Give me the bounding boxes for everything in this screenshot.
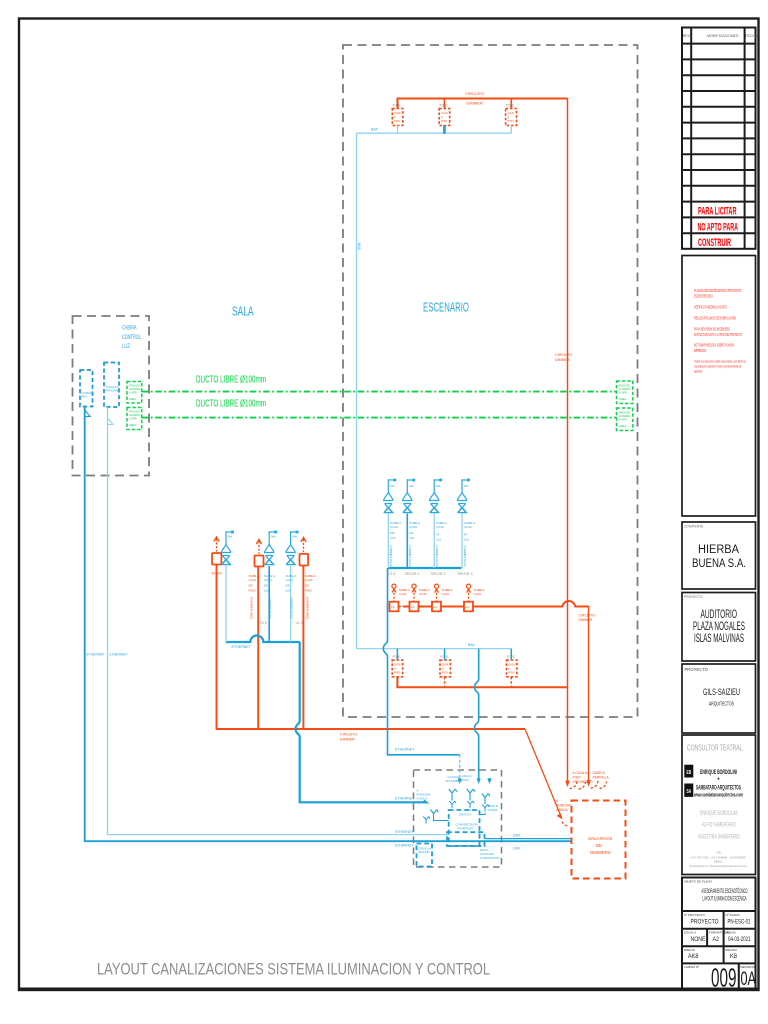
svg-text:ENRIQUE BORDOLINI: ENRIQUE BORDOLINI xyxy=(700,810,738,817)
svg-text:ETHERNET: ETHERNET xyxy=(232,645,252,649)
cabina wire 1 (consola ppal to rack) xyxy=(85,407,571,842)
svg-text:CONSOLA: CONSOLA xyxy=(106,385,119,389)
floor boxes bus wire with hop over vertical xyxy=(403,601,589,606)
fixture ML2 xyxy=(265,531,278,565)
svg-text:CIRCUITO: CIRCUITO xyxy=(465,91,484,96)
svg-text:CAJA: CAJA xyxy=(286,578,294,582)
svg-text:PISO: PISO xyxy=(305,589,313,593)
svg-text:ARQUITECTOS: ARQUITECTOS xyxy=(709,702,734,708)
svg-text:CIRCUITO: CIRCUITO xyxy=(579,614,596,618)
svg-text:SUBE A: SUBE A xyxy=(593,771,606,775)
svg-text:DIMMER: DIMMER xyxy=(555,358,570,362)
svg-text:PASA DE: PASA DE xyxy=(129,384,140,388)
svg-text:Todos los derechos están reser: Todos los derechos están reservados, por… xyxy=(694,360,746,364)
svg-text:A DIMMER RACK: A DIMMER RACK xyxy=(289,597,293,619)
svg-text:DE: DE xyxy=(390,531,394,535)
svg-text:EMAIL: EMAIL xyxy=(714,860,723,864)
arrow above fp4 xyxy=(466,584,470,601)
svg-text:SPLDR 1: SPLDR 1 xyxy=(405,572,420,576)
svg-text:PISO: PISO xyxy=(508,671,514,675)
green patch box right 2 xyxy=(617,408,633,431)
svg-text:DIMMER: DIMMER xyxy=(467,101,483,106)
arrow above fp3 xyxy=(434,584,438,601)
dashed riser arc at diagonal end xyxy=(562,822,569,827)
svg-text:PASA DE: PASA DE xyxy=(619,384,630,388)
convertidor ethernet dashed box xyxy=(449,810,480,846)
dmx double wire to rack xyxy=(485,838,572,840)
svg-text:W: W xyxy=(436,533,439,537)
svg-text:P2 E: P2 E xyxy=(440,104,449,108)
svg-text:PROYECTO: PROYECTO xyxy=(685,667,709,672)
svg-text:CONSOLA: CONSOLA xyxy=(418,847,431,851)
svg-text:ESCALA: ESCALA xyxy=(684,931,696,935)
flag on wire1 xyxy=(85,410,91,417)
svg-text:CONSOLA: CONSOLA xyxy=(81,391,94,395)
svg-text:LAYOUT CANALIZACIONES SISTEMA: LAYOUT CANALIZACIONES SISTEMA ILUMINACIO… xyxy=(97,961,490,979)
svg-text:A VER: A VER xyxy=(129,391,137,395)
fixture labels midleft xyxy=(228,535,297,539)
logo EB xyxy=(685,765,693,777)
electrics bus wire (4 fixtures) y568 xyxy=(388,567,462,569)
svg-text:PARRILLA: PARRILLA xyxy=(593,776,610,780)
svg-text:CAJA: CAJA xyxy=(390,525,398,529)
arrow above fp2 xyxy=(412,584,416,601)
stage dimmer box P2 E xyxy=(440,660,450,677)
svg-text:PN-ESC-01: PN-ESC-01 xyxy=(728,919,751,926)
svg-text:CAJA: CAJA xyxy=(508,663,515,667)
svg-text:DIMMER: DIMMER xyxy=(340,738,355,742)
svg-text:DIBUJO: DIBUJO xyxy=(684,948,696,952)
svg-text:BUENA S.A.: BUENA S.A. xyxy=(692,558,746,570)
svg-text:DMX: DMX xyxy=(513,847,521,851)
svg-text:A DIMMER RACK: A DIMMER RACK xyxy=(306,597,310,620)
stub P3E bottom xyxy=(510,677,512,687)
svg-text:DIMMERS: DIMMERS xyxy=(590,850,611,855)
svg-text:ESCENARIO: ESCENARIO xyxy=(573,780,593,784)
stage floor pocket box V1 xyxy=(300,554,309,566)
stage floor pocket box V3 xyxy=(212,553,221,565)
svg-text:A CAJA A: A CAJA A xyxy=(573,771,588,775)
svg-text:MA: MA xyxy=(293,535,297,539)
GILS-SAIZIEU box xyxy=(682,664,756,733)
svg-text:FECHA: FECHA xyxy=(745,34,758,38)
svg-text:1x2: 1x2 xyxy=(390,536,395,540)
svg-text:P3 E: P3 E xyxy=(506,104,515,108)
svg-text:A DIMMER RACK: A DIMMER RACK xyxy=(435,545,439,567)
gray labels V xyxy=(260,621,303,625)
labels above top boxes xyxy=(393,104,515,108)
connector stubs inside consola box xyxy=(434,798,486,821)
svg-text:PASA DE: PASA DE xyxy=(129,410,140,414)
svg-text:PLANOS DE DISEÑO BASICO PROYEC: PLANOS DE DISEÑO BASICO PROYECTO xyxy=(694,288,741,293)
left data riser wire x356.5 xyxy=(356,133,358,649)
svg-text:OBJETO DE PLANO: OBJETO DE PLANO xyxy=(684,880,713,884)
svg-text:MA: MA xyxy=(228,535,232,539)
svg-text:CAJA: CAJA xyxy=(474,592,482,596)
svg-text:VERIFICAR MEDIDAS IN SITU: VERIFICAR MEDIDAS IN SITU xyxy=(694,305,727,310)
svg-text:SALA: SALA xyxy=(232,304,254,319)
drop to P1 E xyxy=(396,649,398,660)
svg-text:ALFIO SAMBATARO: ALFIO SAMBATARO xyxy=(702,822,736,829)
svg-text:PISO: PISO xyxy=(394,119,400,123)
svg-text:0A: 0A xyxy=(741,968,757,990)
svg-text:ALFOMBRA: ALFOMBRA xyxy=(446,779,463,783)
fixture drop wires midleft xyxy=(225,566,227,642)
escenario dimmer bus wire y687 xyxy=(397,677,567,687)
svg-text:AUDITORIO: AUDITORIO xyxy=(701,609,738,621)
svg-text:MA: MA xyxy=(271,535,275,539)
svg-text:ILUMINACION: ILUMINACION xyxy=(480,856,500,860)
fixture SPLDR2 xyxy=(430,479,443,513)
svg-text:V1 3: V1 3 xyxy=(296,621,303,625)
svg-text:PARA REVISION DE INGENIERO: PARA REVISION DE INGENIERO xyxy=(694,327,730,332)
stub below top box1 xyxy=(397,126,399,134)
drop into consola box w arrow xyxy=(459,755,461,780)
svg-text:NONE: NONE xyxy=(691,936,706,943)
svg-text:LUZ: LUZ xyxy=(122,343,130,350)
wire stage box2 drop xyxy=(257,567,259,730)
svg-text:AK8: AK8 xyxy=(688,953,699,960)
svg-text:CIRCUITO: CIRCUITO xyxy=(340,733,358,737)
svg-text:DE: DE xyxy=(305,584,309,588)
svg-text:REVISO: REVISO xyxy=(726,948,738,952)
svg-text:A SALA: A SALA xyxy=(556,808,568,812)
svg-text:A DIMMER RACK: A DIMMER RACK xyxy=(389,545,393,567)
svg-text:CAJA: CAJA xyxy=(442,592,450,596)
svg-text:PASA DE: PASA DE xyxy=(619,411,630,415)
wire down from floor bus to rack arrow xyxy=(588,607,590,785)
label stack v1 xyxy=(305,574,316,593)
svg-text:PISO: PISO xyxy=(394,671,400,675)
svg-text:SARTA: SARTA xyxy=(488,808,498,812)
floor pocket fp2 xyxy=(410,602,419,612)
svg-text:BAA: BAA xyxy=(468,643,476,647)
label a caja a piso escenario xyxy=(573,771,593,784)
svg-text:BAA: BAA xyxy=(357,243,361,251)
riser from bus left end down with hop xyxy=(383,568,459,755)
spare data wire x478.7 with hops xyxy=(475,649,479,780)
svg-text:GILS-SAIZIEU: GILS-SAIZIEU xyxy=(703,687,740,697)
svg-text:ETHERNET: ETHERNET xyxy=(395,844,413,848)
svg-text:MA: MA xyxy=(436,484,440,488)
duct line 2 (green dash-dot) xyxy=(142,417,617,419)
svg-text:GUARDA: GUARDA xyxy=(129,387,140,391)
fp labels xyxy=(399,588,484,596)
stub P2E bottom xyxy=(444,677,446,687)
svg-text:DIMMER: DIMMER xyxy=(579,618,593,622)
rack label xyxy=(588,836,612,855)
svg-text:IMPRESOS: IMPRESOS xyxy=(694,348,706,353)
label stack v2 xyxy=(249,574,260,593)
svg-text:PUNCION: PUNCION xyxy=(556,804,572,808)
svg-text:PRINCIPAL: PRINCIPAL xyxy=(106,388,120,392)
mid-left ethernet bus y642 with hop xyxy=(226,636,300,642)
stage dimmer box P3 E xyxy=(507,660,517,677)
wire stub P3E top xyxy=(510,98,512,109)
svg-text:ETHERNET: ETHERNET xyxy=(395,830,413,834)
label a puncion a sala xyxy=(556,799,572,812)
svg-text:CABINA: CABINA xyxy=(122,325,137,332)
svg-text:MODIFICACIONES: MODIFICACIONES xyxy=(707,34,739,38)
svg-text:FP: FP xyxy=(411,606,415,610)
svg-text:A DIMMER RACK: A DIMMER RACK xyxy=(463,545,467,567)
svg-text:COMITENTE: COMITENTE xyxy=(684,525,704,529)
HIERBA BUENA box xyxy=(682,522,756,589)
cabina rack box 1 (blue dashed) xyxy=(80,370,93,407)
svg-text:AREA: AREA xyxy=(129,423,136,427)
svg-text:PISO: PISO xyxy=(462,778,470,782)
svg-text:1x2: 1x2 xyxy=(264,589,269,593)
wire from midleft bus down to consola feed with hop xyxy=(296,642,427,802)
label circuito dimmer on vertical xyxy=(555,353,573,362)
svg-text:ASESORAMIENTO ESCENOTÉCNICO: ASESORAMIENTO ESCENOTÉCNICO xyxy=(702,888,748,895)
svg-text:SA: SA xyxy=(687,789,692,795)
green patch box right 1 xyxy=(617,381,633,404)
svg-text:+: + xyxy=(717,777,720,783)
green patch box left 2 xyxy=(127,408,142,430)
svg-text:CAJA: CAJA xyxy=(409,525,417,529)
svg-text:GUARDA: GUARDA xyxy=(619,414,630,418)
svg-text:ETHERNET: ETHERNET xyxy=(395,797,415,801)
svg-text:ESCENOTECNICA: ESCENOTECNICA xyxy=(694,294,713,299)
label circuito dimmer at bus left xyxy=(340,733,358,742)
svg-text:ENRIQUE BORDOLINI: ENRIQUE BORDOLINI xyxy=(700,769,737,776)
small filled arrow marks xyxy=(487,778,491,784)
svg-text:FP: FP xyxy=(434,606,438,610)
bottom data block xyxy=(682,878,756,990)
svg-text:Nº PLANO: Nº PLANO xyxy=(726,913,741,917)
stage dimmer box P1 E xyxy=(392,660,402,677)
svg-text:CAJA: CAJA xyxy=(249,578,257,582)
svg-text:1x2: 1x2 xyxy=(409,536,414,540)
svg-text:A VER: A VER xyxy=(619,418,627,422)
svg-text:GUARDA: GUARDA xyxy=(129,413,140,417)
top data wire y133 xyxy=(357,132,512,134)
green patch box left 1 xyxy=(127,382,142,404)
fixture SPLDR1 xyxy=(403,479,416,513)
svg-text:FP: FP xyxy=(391,606,395,610)
svg-text:W: W xyxy=(464,533,467,537)
arrowhead at end of diagonal xyxy=(557,813,563,819)
up arrow above V1 box xyxy=(301,537,306,552)
svg-text:A VER: A VER xyxy=(619,391,627,395)
red stamp: PARA LICITAR / NO APTO PARA / CONSTRUIR xyxy=(698,206,739,250)
svg-text:A: A xyxy=(394,667,396,671)
CONSULTOR TEATRAL box xyxy=(682,735,756,875)
cabina rack box 2 (blue dashed) xyxy=(104,363,119,408)
dimmer box P2 E top xyxy=(439,109,450,126)
svg-text:P1 E: P1 E xyxy=(393,104,402,108)
svg-text:FP: FP xyxy=(466,606,470,610)
svg-text:CONSTRUIR: CONSTRUIR xyxy=(698,237,731,249)
svg-text:SWITCH: SWITCH xyxy=(459,813,471,817)
revisions table xyxy=(682,28,756,249)
fixture drop wires 4group xyxy=(387,514,389,568)
svg-text:PISO: PISO xyxy=(441,119,447,123)
svg-text:AREA: AREA xyxy=(619,397,626,401)
svg-text:AREA: AREA xyxy=(619,424,626,428)
svg-text:LAMINA Nº: LAMINA Nº xyxy=(684,965,700,969)
svg-text:PISO: PISO xyxy=(573,776,581,780)
svg-text:ESTRUCTURALISTA A CARGO DEL PR: ESTRUCTURALISTA A CARGO DEL PROYECTO xyxy=(694,332,742,337)
svg-text:A DIMMER RACK: A DIMMER RACK xyxy=(250,597,254,620)
notes box xyxy=(682,256,756,517)
wire stage box3 drop xyxy=(302,566,304,729)
dimmer box P1 E top xyxy=(392,109,403,126)
wire stub P1E top xyxy=(443,98,445,109)
svg-text:A2: A2 xyxy=(713,936,720,943)
svg-text:MA: MA xyxy=(390,484,394,488)
sala rack de dimmers dashed box xyxy=(572,801,626,879)
bus labels xyxy=(389,572,473,576)
svg-text:DE: DE xyxy=(264,584,268,588)
labels above stage boxes xyxy=(393,655,516,659)
svg-text:DE: DE xyxy=(596,843,602,848)
escenario boundary dashed box xyxy=(343,45,638,717)
consola secundaria dashed box xyxy=(417,844,433,867)
svg-text:SPLDR 2: SPLDR 2 xyxy=(431,572,446,576)
svg-text:PLAZA NOGALES: PLAZA NOGALES xyxy=(693,621,745,633)
svg-text:autor: autor xyxy=(694,370,703,374)
svg-text:NO APTO PARA: NO APTO PARA xyxy=(698,222,739,234)
svg-text:A SALA: A SALA xyxy=(417,797,427,801)
svg-text:A: A xyxy=(556,799,559,803)
svg-text:CAJA: CAJA xyxy=(264,578,272,582)
svg-text:GUARDA: GUARDA xyxy=(619,387,630,391)
svg-text:CAJA: CAJA xyxy=(394,111,401,115)
svg-text:SECUND.: SECUND. xyxy=(418,850,430,854)
svg-text:A: A xyxy=(442,667,444,671)
svg-text:DE: DE xyxy=(286,584,290,588)
arrow above fp1 xyxy=(392,584,396,601)
arrowhead down on long vertical at rack xyxy=(565,781,570,787)
svg-text:1x2: 1x2 xyxy=(464,538,469,542)
svg-text:ETHERNET: ETHERNET xyxy=(87,653,105,657)
svg-text:V2 3: V2 3 xyxy=(260,621,267,625)
svg-text:A DIMMER RACK: A DIMMER RACK xyxy=(268,597,272,619)
svg-text:MA: MA xyxy=(409,484,413,488)
drop to P3 E xyxy=(510,649,512,660)
svg-text:A VER: A VER xyxy=(129,417,137,421)
svg-text:CAJA: CAJA xyxy=(394,663,401,667)
floor pocket fp3 xyxy=(432,602,441,612)
svg-text:REALIZAR PLANOS DE FABRICACIÓN: REALIZAR PLANOS DE FABRICACIÓN xyxy=(694,316,736,321)
svg-text:TEL: TEL xyxy=(717,851,723,855)
lower dimmer bus wire y729 xyxy=(217,565,526,729)
drop to P2 E xyxy=(444,649,446,660)
dimmer box P3 E top xyxy=(506,109,517,126)
svg-text:CAJA: CAJA xyxy=(436,525,444,529)
floor pocket boxes row: fp1 xyxy=(390,602,399,612)
svg-text:PISO: PISO xyxy=(508,119,514,123)
svg-text:04-03-2021: 04-03-2021 xyxy=(728,936,751,943)
svg-text:A: A xyxy=(508,115,510,119)
svg-text:ISLAS MALVINAS: ISLAS MALVINAS xyxy=(694,633,744,645)
table header labels xyxy=(683,34,758,38)
arrowhead down at parrilla drop xyxy=(586,780,591,786)
cabina wire 2 (to convertidor) xyxy=(108,407,449,835)
svg-text:BAA: BAA xyxy=(371,128,379,132)
svg-text:DE: DE xyxy=(249,584,253,588)
svg-text:CAJA: CAJA xyxy=(419,592,427,596)
top dimmer bus wire xyxy=(398,99,568,109)
svg-text:A PISO: A PISO xyxy=(212,572,223,576)
svg-text:NO TOMAR MEDIDAS SOBRE PLANOS: NO TOMAR MEDIDAS SOBRE PLANOS xyxy=(694,343,734,348)
patch dashed box wide xyxy=(447,832,485,846)
consola control dashed box (bottom) xyxy=(414,770,502,867)
svg-text:DUCTO LIBRE Ø100mm: DUCTO LIBRE Ø100mm xyxy=(196,375,266,386)
svg-text:CAJA: CAJA xyxy=(305,578,313,582)
svg-text:ETHERNET: ETHERNET xyxy=(395,748,415,752)
stage floor pocket box V2 xyxy=(255,556,264,567)
svg-text:EB: EB xyxy=(687,770,692,776)
up arrow above V3 box xyxy=(214,537,219,552)
svg-text:PARA LICITAR: PARA LICITAR xyxy=(698,206,737,218)
svg-text:AGOSTINA SAMBATARO: AGOSTINA SAMBATARO xyxy=(698,833,740,840)
floor pocket fp4 xyxy=(464,602,473,612)
svg-text:A: A xyxy=(508,667,510,671)
svg-text:K8: K8 xyxy=(730,953,738,960)
dashed riser arc at long vertical end xyxy=(570,781,578,789)
label CABINA CONTROL LUZ xyxy=(122,325,141,351)
cabina control luz dashed box xyxy=(73,316,150,476)
svg-text:SALA RACK: SALA RACK xyxy=(588,836,612,841)
svg-text:A DIMMER RACK: A DIMMER RACK xyxy=(408,545,412,567)
svg-text:1x2: 1x2 xyxy=(286,589,291,593)
logo SA xyxy=(685,784,693,796)
stub below top box2 (thick) xyxy=(443,126,446,134)
fixture ML1 xyxy=(221,531,234,565)
svg-text:PISO: PISO xyxy=(442,671,448,675)
svg-text:CAJA: CAJA xyxy=(464,525,472,529)
svg-text:CAJA: CAJA xyxy=(441,111,448,115)
svg-text:A: A xyxy=(441,115,443,119)
svg-text:009: 009 xyxy=(711,965,737,993)
fixture ML3 xyxy=(286,531,299,565)
svg-text:PISO: PISO xyxy=(249,589,257,593)
svg-text:ETHERNET: ETHERNET xyxy=(110,653,128,657)
svg-text:ETHERNET: ETHERNET xyxy=(458,827,474,831)
svg-text:A: A xyxy=(394,115,396,119)
svg-text:FECHA: FECHA xyxy=(726,931,736,935)
svg-text:CAJA: CAJA xyxy=(399,592,407,596)
flag on wire2 xyxy=(108,418,114,425)
fixture labels 4group xyxy=(390,484,468,488)
svg-text:PROYECTO: PROYECTO xyxy=(684,595,703,599)
svg-text:PPAL: PPAL xyxy=(81,394,88,398)
dashed riser arc at parrilla drop xyxy=(591,781,599,789)
svg-text:SAMBATARO ARQUITECTOS: SAMBATARO ARQUITECTOS xyxy=(696,784,741,791)
svg-text:HIERBA: HIERBA xyxy=(698,544,739,556)
svg-text:CAJA: CAJA xyxy=(442,663,449,667)
svg-text:AREA: AREA xyxy=(129,397,136,401)
svg-text:DE: DE xyxy=(409,531,413,535)
duct line 1 (green dash-dot) xyxy=(142,391,617,393)
svg-text:CONTROL: CONTROL xyxy=(122,334,141,341)
svg-text:reproducción parcial o total y: reproducción parcial o total y archivami… xyxy=(694,365,741,369)
AUDITORIO box xyxy=(682,593,756,662)
svg-text:REV: REV xyxy=(683,34,691,38)
svg-text:LAYOUT ILUMINACIÓN ESCÉNICA: LAYOUT ILUMINACIÓN ESCÉNICA xyxy=(703,896,747,903)
svg-text:ebordolini@gmail.com alfiosam: ebordolini@gmail.com alfiosambataro@samb… xyxy=(689,864,747,868)
arrowhead into consola box xyxy=(423,800,430,804)
fixture LT6 xyxy=(384,479,397,513)
stub below top box3 xyxy=(510,126,512,134)
svg-text:www.sambataroarquitectos.com: www.sambataroarquitectos.com xyxy=(693,792,743,798)
svg-text:SPLDR 3: SPLDR 3 xyxy=(458,572,473,576)
svg-text:MA: MA xyxy=(464,484,468,488)
fixture SPLDR3 xyxy=(457,479,470,513)
